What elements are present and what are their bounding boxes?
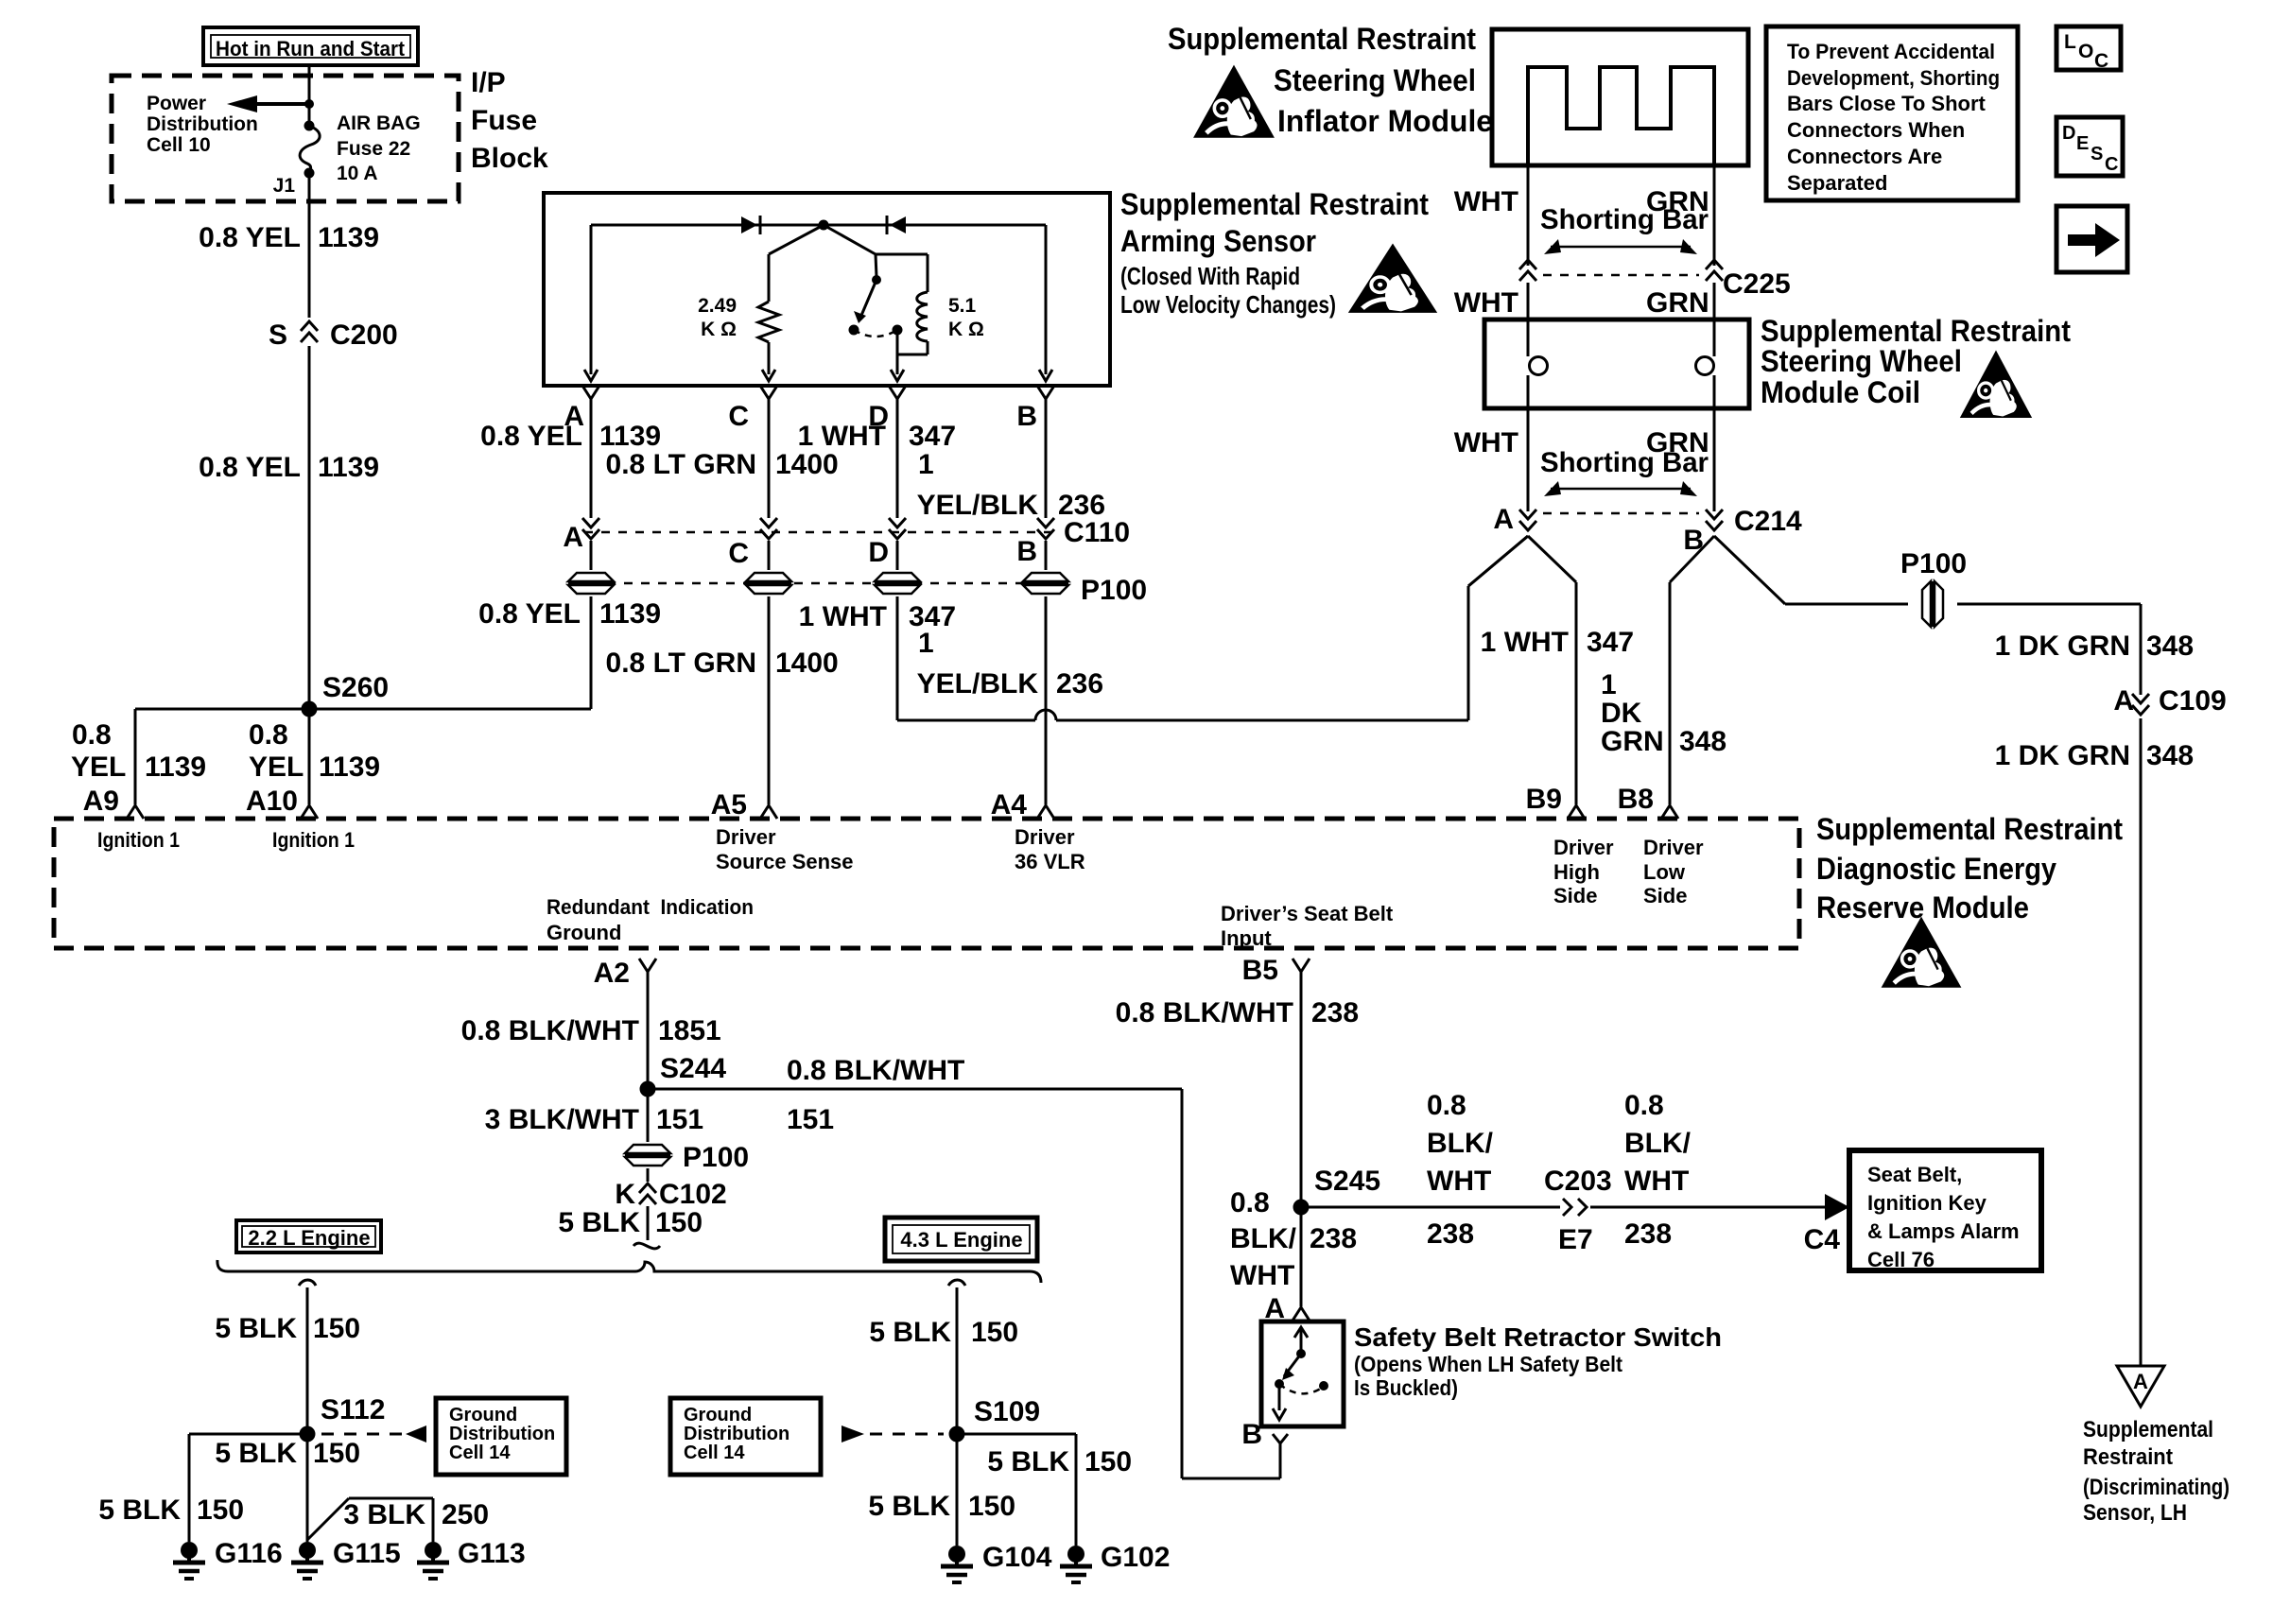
- svg-text:E7: E7: [1558, 1224, 1593, 1255]
- svg-text:0.8 BLK/WHT: 0.8 BLK/WHT: [787, 1055, 964, 1086]
- svg-text:238: 238: [1311, 997, 1359, 1028]
- svg-text:Distribution: Distribution: [449, 1424, 555, 1444]
- svg-text:1400: 1400: [775, 449, 839, 480]
- svg-text:C: C: [728, 401, 749, 432]
- svg-text:C203: C203: [1544, 1166, 1612, 1197]
- svg-text:L: L: [2064, 31, 2076, 53]
- svg-text:1 WHT: 1 WHT: [799, 601, 887, 632]
- svg-text:Ignition 1: Ignition 1: [272, 828, 355, 852]
- svg-text:C102: C102: [659, 1179, 727, 1210]
- svg-text:250: 250: [442, 1499, 489, 1530]
- svg-text:& Lamps Alarm: & Lamps Alarm: [1867, 1219, 2020, 1243]
- svg-text:G104: G104: [982, 1542, 1052, 1573]
- svg-text:Supplemental Restraint: Supplemental Restraint: [1816, 812, 2123, 846]
- svg-text:G115: G115: [333, 1538, 401, 1569]
- svg-text:Ignition 1: Ignition 1: [97, 828, 180, 852]
- svg-text:J1: J1: [273, 175, 296, 197]
- svg-text:0.8 YEL: 0.8 YEL: [199, 452, 301, 483]
- svg-text:B8: B8: [1618, 784, 1654, 815]
- svg-text:G113: G113: [458, 1538, 526, 1569]
- svg-text:(Closed With Rapid: (Closed With Rapid: [1120, 262, 1300, 290]
- svg-text:B: B: [1016, 401, 1037, 432]
- svg-text:A: A: [1493, 504, 1514, 535]
- svg-text:YEL/BLK: YEL/BLK: [917, 668, 1039, 700]
- svg-text:Connectors When: Connectors When: [1787, 118, 1965, 142]
- svg-text:Inflator Module: Inflator Module: [1277, 104, 1493, 138]
- svg-text:(Discriminating): (Discriminating): [2083, 1475, 2230, 1500]
- svg-text:DK: DK: [1601, 698, 1642, 729]
- svg-text:C109: C109: [2159, 685, 2227, 717]
- svg-text:K Ω: K Ω: [948, 319, 984, 340]
- svg-text:Diagnostic Energy: Diagnostic Energy: [1816, 852, 2056, 886]
- svg-text:1 WHT: 1 WHT: [798, 421, 886, 452]
- svg-text:P100: P100: [1900, 548, 1967, 579]
- svg-text:0.8: 0.8: [1230, 1187, 1270, 1218]
- svg-text:High: High: [1553, 860, 1600, 884]
- svg-text:Power: Power: [147, 93, 206, 114]
- svg-text:5 BLK: 5 BLK: [868, 1491, 950, 1522]
- svg-text:S112: S112: [321, 1394, 385, 1425]
- svg-text:1: 1: [918, 449, 934, 480]
- svg-text:C: C: [728, 538, 749, 569]
- svg-text:Ground: Ground: [547, 921, 621, 944]
- svg-text:E: E: [2076, 133, 2089, 154]
- svg-text:1: 1: [918, 628, 934, 659]
- svg-text:WHT: WHT: [1454, 186, 1518, 217]
- svg-text:0.8 YEL: 0.8 YEL: [480, 421, 582, 452]
- svg-text:S109: S109: [974, 1396, 1040, 1427]
- svg-text:0.8 YEL: 0.8 YEL: [478, 598, 581, 630]
- svg-text:WHT: WHT: [1454, 287, 1518, 319]
- svg-text:Seat Belt,: Seat Belt,: [1867, 1163, 1962, 1186]
- svg-text:Module Coil: Module Coil: [1761, 375, 1920, 409]
- svg-text:5 BLK: 5 BLK: [215, 1438, 297, 1469]
- svg-text:Supplemental Restraint: Supplemental Restraint: [1168, 22, 1476, 56]
- svg-text:BLK/: BLK/: [1427, 1128, 1494, 1159]
- svg-text:GRN: GRN: [1601, 726, 1664, 757]
- svg-text:Distribution: Distribution: [147, 113, 258, 135]
- svg-text:Driver’s Seat Belt: Driver’s Seat Belt: [1221, 902, 1394, 925]
- svg-text:0.8: 0.8: [1624, 1090, 1664, 1121]
- svg-text:1139: 1139: [318, 452, 379, 483]
- svg-text:Supplemental: Supplemental: [2083, 1417, 2213, 1443]
- svg-text:A: A: [563, 522, 583, 553]
- svg-text:151: 151: [656, 1104, 703, 1135]
- svg-text:Low: Low: [1643, 860, 1686, 884]
- svg-text:Sensor, LH: Sensor, LH: [2083, 1500, 2187, 1526]
- svg-text:B9: B9: [1526, 784, 1562, 815]
- svg-text:0.8: 0.8: [1427, 1090, 1466, 1121]
- svg-text:238: 238: [1427, 1218, 1474, 1250]
- svg-text:2.49: 2.49: [698, 295, 737, 317]
- svg-text:Side: Side: [1643, 884, 1687, 907]
- svg-text:4.3 L Engine: 4.3 L Engine: [900, 1228, 1022, 1252]
- svg-text:Cell 14: Cell 14: [449, 1443, 511, 1463]
- svg-text:0.8: 0.8: [249, 719, 288, 751]
- svg-text:G102: G102: [1101, 1542, 1170, 1573]
- svg-text:Fuse: Fuse: [471, 105, 537, 136]
- svg-text:WHT: WHT: [1230, 1260, 1294, 1291]
- svg-text:1139: 1139: [599, 421, 661, 452]
- svg-text:236: 236: [1056, 668, 1103, 700]
- svg-text:3 BLK/WHT: 3 BLK/WHT: [485, 1104, 639, 1135]
- svg-text:YEL/BLK: YEL/BLK: [917, 490, 1039, 521]
- svg-text:G116: G116: [215, 1538, 283, 1569]
- svg-text:C225: C225: [1723, 268, 1791, 300]
- svg-text:Driver: Driver: [1015, 825, 1075, 849]
- svg-text:C214: C214: [1734, 506, 1802, 537]
- svg-text:Cell 10: Cell 10: [147, 134, 211, 156]
- svg-text:Source Sense: Source Sense: [716, 850, 854, 873]
- svg-text:1 DK GRN: 1 DK GRN: [1995, 740, 2130, 771]
- svg-text:0.8 YEL: 0.8 YEL: [199, 222, 301, 253]
- svg-text:1 DK GRN: 1 DK GRN: [1995, 631, 2130, 662]
- svg-text:K Ω: K Ω: [701, 319, 737, 340]
- svg-text:A10: A10: [246, 786, 298, 817]
- svg-text:S: S: [269, 320, 287, 351]
- svg-text:1139: 1139: [318, 222, 379, 253]
- svg-text:Connectors Are: Connectors Are: [1787, 145, 1942, 168]
- svg-text:0.8 BLK/WHT: 0.8 BLK/WHT: [461, 1015, 639, 1046]
- svg-text:238: 238: [1310, 1223, 1357, 1254]
- svg-text:Block: Block: [471, 143, 548, 174]
- svg-text:Cell 76: Cell 76: [1867, 1248, 1935, 1271]
- svg-text:(Opens When LH Safety Belt: (Opens When LH Safety Belt: [1354, 1352, 1622, 1376]
- svg-text:BLK/: BLK/: [1624, 1128, 1692, 1159]
- svg-text:Is Buckled): Is Buckled): [1354, 1375, 1458, 1400]
- svg-text:YEL: YEL: [249, 752, 304, 783]
- svg-text:Driver: Driver: [1643, 836, 1704, 859]
- svg-text:Development, Shorting: Development, Shorting: [1787, 66, 2000, 90]
- svg-text:Side: Side: [1553, 884, 1597, 907]
- svg-text:P100: P100: [683, 1142, 749, 1173]
- svg-text:C110: C110: [1064, 517, 1130, 548]
- svg-text:0.8 LT GRN: 0.8 LT GRN: [606, 449, 756, 480]
- svg-text:1139: 1139: [319, 752, 380, 783]
- svg-text:347: 347: [909, 421, 956, 452]
- svg-text:BLK/: BLK/: [1230, 1223, 1297, 1254]
- svg-text:Arming Sensor: Arming Sensor: [1120, 224, 1316, 258]
- svg-text:Ground: Ground: [684, 1405, 752, 1425]
- svg-text:1139: 1139: [599, 598, 661, 630]
- svg-text:Restraint: Restraint: [2083, 1444, 2173, 1470]
- svg-text:5 BLK: 5 BLK: [987, 1446, 1069, 1477]
- svg-text:Input: Input: [1221, 926, 1272, 950]
- svg-text:Distribution: Distribution: [684, 1424, 789, 1444]
- svg-text:Redundant Indication: Redundant Indication: [547, 895, 754, 919]
- svg-text:Safety Belt Retractor Switch: Safety Belt Retractor Switch: [1354, 1322, 1722, 1352]
- svg-text:5 BLK: 5 BLK: [558, 1207, 640, 1238]
- svg-text:Steering Wheel: Steering Wheel: [1761, 344, 1962, 378]
- svg-text:A: A: [2133, 1370, 2148, 1393]
- svg-text:YEL: YEL: [71, 752, 126, 783]
- svg-text:S: S: [2091, 144, 2103, 164]
- svg-text:1400: 1400: [775, 648, 839, 679]
- svg-text:150: 150: [655, 1207, 703, 1238]
- svg-text:36 VLR: 36 VLR: [1015, 850, 1085, 873]
- svg-text:O: O: [2078, 41, 2093, 62]
- svg-text:1 WHT: 1 WHT: [1481, 627, 1569, 658]
- svg-text:B: B: [1241, 1419, 1262, 1450]
- svg-text:347: 347: [1587, 627, 1634, 658]
- svg-text:AIR BAG: AIR BAG: [337, 112, 421, 134]
- svg-text:238: 238: [1624, 1218, 1672, 1250]
- svg-text:150: 150: [971, 1317, 1018, 1348]
- svg-text:Steering Wheel: Steering Wheel: [1274, 63, 1476, 97]
- svg-text:A4: A4: [991, 789, 1028, 821]
- svg-text:Ignition Key: Ignition Key: [1867, 1191, 1987, 1215]
- svg-text:D: D: [2062, 123, 2075, 144]
- svg-text:1851: 1851: [658, 1015, 721, 1046]
- svg-text:5 BLK: 5 BLK: [869, 1317, 951, 1348]
- svg-text:C4: C4: [1804, 1224, 1841, 1255]
- svg-text:A9: A9: [83, 786, 119, 817]
- svg-text:150: 150: [1084, 1446, 1132, 1477]
- svg-text:A5: A5: [711, 789, 747, 821]
- svg-text:2.2 L Engine: 2.2 L Engine: [248, 1226, 370, 1250]
- svg-text:D: D: [868, 537, 889, 568]
- svg-text:I/P: I/P: [471, 67, 506, 98]
- svg-text:0.8 LT GRN: 0.8 LT GRN: [606, 648, 756, 679]
- svg-text:0.8 BLK/WHT: 0.8 BLK/WHT: [1116, 997, 1293, 1028]
- svg-text:5 BLK: 5 BLK: [98, 1494, 181, 1526]
- svg-text:S260: S260: [322, 672, 389, 703]
- svg-text:Low Velocity Changes): Low Velocity Changes): [1120, 290, 1336, 319]
- svg-text:C: C: [2094, 50, 2108, 72]
- svg-text:Fuse 22: Fuse 22: [337, 138, 410, 160]
- svg-text:Shorting Bar: Shorting Bar: [1540, 447, 1709, 478]
- svg-text:B: B: [1016, 536, 1037, 567]
- svg-text:Separated: Separated: [1787, 171, 1887, 195]
- svg-text:1: 1: [1601, 669, 1617, 700]
- svg-text:C200: C200: [330, 320, 398, 351]
- svg-text:0.8: 0.8: [72, 719, 112, 751]
- svg-text:348: 348: [2146, 631, 2194, 662]
- svg-text:151: 151: [787, 1104, 834, 1135]
- svg-text:Hot in Run and Start: Hot in Run and Start: [216, 37, 406, 60]
- svg-text:A2: A2: [594, 958, 630, 989]
- svg-text:WHT: WHT: [1624, 1166, 1689, 1197]
- svg-text:B5: B5: [1242, 955, 1278, 986]
- svg-text:Ground: Ground: [449, 1405, 517, 1425]
- svg-text:5.1: 5.1: [948, 295, 977, 317]
- svg-text:5 BLK: 5 BLK: [215, 1313, 297, 1344]
- svg-text:S245: S245: [1314, 1166, 1380, 1197]
- svg-text:Supplemental Restraint: Supplemental Restraint: [1761, 314, 2071, 348]
- svg-text:348: 348: [1679, 726, 1726, 757]
- svg-text:Shorting Bar: Shorting Bar: [1540, 204, 1709, 235]
- svg-text:10 A: 10 A: [337, 163, 378, 184]
- svg-text:P100: P100: [1081, 575, 1147, 606]
- svg-text:348: 348: [2146, 740, 2194, 771]
- svg-text:To Prevent Accidental: To Prevent Accidental: [1787, 40, 1995, 63]
- svg-text:Cell 14: Cell 14: [684, 1443, 745, 1463]
- svg-text:1139: 1139: [145, 752, 206, 783]
- svg-text:GRN: GRN: [1646, 287, 1709, 319]
- svg-text:C: C: [2105, 154, 2118, 175]
- svg-text:Supplemental Restraint: Supplemental Restraint: [1120, 187, 1429, 221]
- svg-text:Driver: Driver: [716, 825, 776, 849]
- svg-text:Bars Close To Short: Bars Close To Short: [1787, 92, 1987, 115]
- svg-text:150: 150: [968, 1491, 1015, 1522]
- svg-text:150: 150: [197, 1494, 244, 1526]
- svg-text:K: K: [615, 1179, 635, 1210]
- svg-text:WHT: WHT: [1454, 427, 1518, 458]
- svg-text:150: 150: [313, 1313, 360, 1344]
- svg-text:3 BLK: 3 BLK: [343, 1499, 425, 1530]
- svg-text:150: 150: [313, 1438, 360, 1469]
- svg-text:WHT: WHT: [1427, 1166, 1491, 1197]
- svg-text:Driver: Driver: [1553, 836, 1614, 859]
- svg-text:A: A: [2113, 685, 2134, 717]
- svg-text:S244: S244: [660, 1053, 726, 1084]
